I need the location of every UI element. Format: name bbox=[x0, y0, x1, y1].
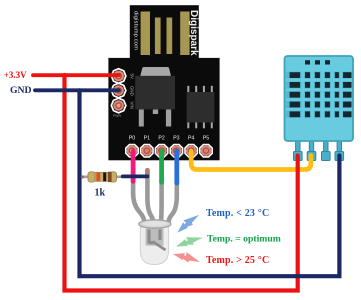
resistor R1 1k bbox=[88, 172, 117, 182]
svg-text:+3.3V: +3.3V bbox=[4, 70, 27, 80]
wire P3 blue anode bbox=[174, 151, 179, 183]
svg-text:Temp. < 23 °C: Temp. < 23 °C bbox=[206, 208, 269, 219]
Digispark board U1 bbox=[108, 58, 219, 160]
wire +3.3V loop to DHT11 bbox=[65, 75, 298, 291]
wire P0 red anode bbox=[131, 151, 136, 181]
pad P5 bbox=[200, 145, 212, 157]
svg-text:P1: P1 bbox=[144, 136, 150, 142]
IC ATtiny85 U2 bbox=[187, 86, 215, 129]
wire jumper resistor to LED cathode bbox=[123, 174, 148, 178]
svg-text:P2: P2 bbox=[158, 136, 164, 142]
LED die structure bbox=[146, 229, 164, 246]
RGB LED leg 1 bbox=[133, 179, 144, 222]
DHT11 leg 4 bbox=[337, 141, 341, 153]
pad 5V bbox=[111, 69, 126, 84]
svg-text:P0: P0 bbox=[129, 136, 135, 142]
svg-text:Temp. = optimum: Temp. = optimum bbox=[207, 234, 281, 245]
resistor R1 leads bbox=[82, 176, 123, 179]
svg-text:1k: 1k bbox=[95, 188, 106, 199]
DHT11 leg 2 bbox=[309, 141, 313, 153]
DHT11 sensor U3 bbox=[285, 56, 354, 161]
DHT11 vent holes bbox=[305, 60, 330, 64]
RGB LED leg 2 bbox=[147, 173, 153, 222]
svg-text:Digispark: Digispark bbox=[188, 10, 199, 56]
pad P3 bbox=[170, 145, 182, 157]
DHT11 leg 3 bbox=[324, 141, 328, 153]
wire +3.3V rail bbox=[33, 73, 119, 77]
svg-text:digistump.com: digistump.com bbox=[133, 11, 139, 50]
USB connector J1 bbox=[130, 5, 199, 58]
pad P0 bbox=[126, 145, 138, 157]
DHT11 rib highlights bbox=[301, 71, 342, 120]
pad P2 bbox=[155, 145, 167, 157]
svg-text:GND: GND bbox=[130, 86, 135, 96]
LED flange bbox=[139, 220, 171, 228]
pad P4 bbox=[185, 145, 197, 157]
wire GND loop to DHT11 bbox=[80, 90, 340, 276]
svg-text:GND: GND bbox=[10, 85, 32, 96]
svg-text:P3: P3 bbox=[173, 136, 179, 142]
pad VIN bbox=[111, 98, 126, 113]
wire P4 data to DHT11 bbox=[191, 151, 311, 169]
power pads group (5V GND VIN) bbox=[111, 69, 134, 118]
DHT11 leg 1 bbox=[296, 141, 300, 153]
svg-text:VIN: VIN bbox=[130, 102, 135, 109]
svg-text:PWR: PWR bbox=[113, 114, 121, 118]
wire P2 green anode bbox=[159, 151, 164, 182]
DHT11 body bbox=[285, 56, 354, 141]
resistor lead bead bbox=[81, 176, 84, 179]
bolt hot (red) bbox=[173, 247, 201, 268]
IO pads row P0-P5 bbox=[126, 136, 212, 157]
svg-text:P4: P4 bbox=[188, 136, 194, 142]
svg-text:5V: 5V bbox=[130, 74, 135, 79]
wire GND rail bbox=[35, 88, 119, 92]
RGB LED leg 3 bbox=[159, 180, 164, 222]
svg-text:Temp. > 25 °C: Temp. > 25 °C bbox=[206, 255, 269, 266]
bolt optimum (green) bbox=[175, 235, 203, 247]
RGB LED leg 4 bbox=[169, 181, 177, 222]
voltage regulator VR1 bbox=[135, 67, 175, 127]
svg-text:P5: P5 bbox=[203, 136, 209, 142]
bolt cold (blue) bbox=[174, 213, 202, 234]
RGB LED D1 body bbox=[139, 220, 171, 265]
leg 2 sleeve tip bbox=[145, 170, 150, 175]
pad GND bbox=[111, 83, 126, 98]
DHT11 vent band rows bbox=[286, 72, 352, 118]
pad P1 bbox=[141, 145, 153, 157]
